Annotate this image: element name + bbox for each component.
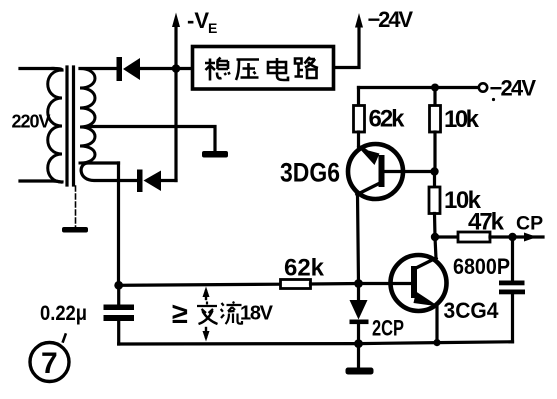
wire box output to -24V arrow — [334, 27, 359, 68]
svg-text:2CP: 2CP — [372, 316, 404, 341]
node lower rail dot — [354, 339, 363, 348]
wire D2 to -VE vertical — [161, 179, 176, 182]
wire Q1 collector down — [358, 195, 359, 284]
wire C1 bottom stem — [117, 321, 120, 344]
svg-text:−24V: −24V — [368, 7, 414, 32]
wire C2 bottom stem — [511, 294, 514, 342]
svg-text:−24V: −24V — [490, 76, 537, 101]
wire lower rail — [119, 342, 513, 344]
Q2 base bar — [411, 266, 417, 298]
transistor Q1 3DG6 circle — [348, 144, 403, 199]
svg-text:62k: 62k — [369, 106, 406, 133]
char 交 — [197, 302, 218, 325]
svg-text:CP: CP — [516, 213, 543, 235]
node R3-R4 dot — [431, 233, 439, 241]
wire Q2 collector up — [435, 237, 436, 259]
char 压 — [236, 60, 259, 81]
arrow AC up stem — [205, 291, 207, 299]
node -VE junction dot — [172, 64, 181, 73]
secondary top lead wire — [80, 67, 117, 70]
wire primary top bend — [53, 69, 62, 71]
wire upper rail right — [311, 282, 359, 286]
char 路 — [295, 57, 319, 78]
wire base node to R3 — [433, 172, 436, 188]
capacitor C2 plate top — [499, 281, 525, 286]
resistor R1 62k — [354, 106, 365, 133]
char 流 — [221, 302, 242, 325]
node rail-R2 dot — [431, 84, 439, 92]
Q2 emitter arrow wedge — [414, 292, 439, 307]
node C1 dot — [114, 281, 123, 290]
wire -24V rail — [359, 86, 479, 89]
arrow -24V head — [355, 13, 363, 28]
wire R3 to node — [433, 214, 437, 238]
transformer core line left — [65, 67, 68, 185]
svg-text:47k: 47k — [468, 209, 505, 236]
ground G2 bar — [346, 368, 374, 375]
diode D1 cathode bar — [117, 57, 123, 81]
svg-text:220V: 220V — [12, 112, 51, 132]
node R4-C2 dot — [508, 233, 516, 241]
wire upper rail left — [119, 284, 281, 285]
capacitor C2 plate bottom — [499, 290, 525, 295]
node upper rail dot — [354, 279, 363, 288]
wire R1 to Q1 emitter — [357, 132, 360, 147]
wire primary bottom bend — [20, 181, 62, 182]
svg-text:-V: -V — [187, 8, 209, 33]
wire -VE vertical — [174, 69, 177, 181]
diode D3 2CP triangle — [350, 300, 368, 320]
arrow AC down head — [203, 331, 210, 342]
wire rail to R2 — [433, 88, 436, 106]
Q2 collector diagonal — [416, 258, 436, 268]
diode D1 triangle — [123, 58, 140, 80]
wire node to R4 — [435, 235, 458, 238]
resistor R5 62k horizontal — [281, 280, 311, 289]
Q1 base lead — [385, 170, 435, 173]
figure number circle 7 — [30, 343, 69, 382]
core ground bar — [62, 227, 88, 233]
wire C2 top stem — [511, 237, 514, 281]
Q1 base bar — [379, 155, 385, 187]
wire Q2 emitter down — [435, 306, 438, 343]
node Q2 emitter rail dot — [433, 339, 440, 346]
resistor R4 47k — [458, 232, 490, 242]
ground G2 stem — [357, 344, 360, 368]
tick mark — [63, 335, 66, 342]
secondary bottom end loop wire — [81, 163, 137, 181]
Q1 collector diagonal — [357, 184, 379, 195]
wire D3 to lower rail — [357, 324, 360, 344]
wire D1 to node -VE — [140, 67, 176, 70]
core ground lead (dashed) — [75, 186, 77, 227]
svg-text:62k: 62k — [284, 255, 325, 282]
arrow CP head — [524, 233, 537, 242]
resistor R2 10k — [430, 106, 441, 133]
svg-text:3CG4: 3CG4 — [444, 298, 500, 323]
capacitor C1 plate top — [104, 305, 135, 311]
char 稳 — [205, 58, 230, 81]
svg-text:6800P: 6800P — [453, 254, 510, 279]
arrow -VE head — [172, 13, 180, 28]
wire node to D3 — [357, 284, 360, 301]
node Q1 base dot — [430, 167, 438, 175]
label 交流 (drawn strokes) — [197, 302, 242, 325]
wire rail to R1 — [357, 88, 360, 106]
char 电 — [268, 58, 288, 80]
wire C1 top stem — [117, 285, 120, 305]
Q1 emitter diagonal — [359, 146, 367, 151]
wire -VE arrow stem — [174, 26, 177, 69]
left vertical wire to bottom rail — [117, 163, 120, 285]
box U1 regulator — [193, 47, 334, 90]
center tap ground bar — [202, 151, 228, 158]
transistor Q2 3CG4 circle — [391, 255, 447, 311]
label 稳压电路 (drawn strokes) — [205, 57, 318, 81]
svg-text:E: E — [208, 20, 217, 36]
diode D2 triangle — [144, 171, 162, 192]
wire node to box — [176, 67, 192, 70]
wire R2 to base node — [433, 132, 436, 172]
terminal -24V circle — [479, 83, 487, 91]
wire Q2 base lead — [359, 282, 412, 285]
svg-text:3DG6: 3DG6 — [280, 158, 340, 188]
svg-text:7: 7 — [41, 347, 58, 380]
diode D3 cathode bar — [350, 320, 369, 325]
capacitor C1 plate bottom — [104, 315, 135, 321]
transformer T1 primary top lead — [20, 67, 53, 70]
wire R4 to CP out — [490, 235, 543, 238]
svg-text:0.22μ: 0.22μ — [40, 302, 87, 325]
arrow AC up head — [203, 287, 210, 298]
transformer T1 secondary winding — [80, 69, 95, 164]
svg-text:10k: 10k — [444, 106, 480, 133]
speck — [492, 98, 495, 101]
svg-text:18V: 18V — [240, 303, 274, 325]
arrow AC down stem — [205, 328, 207, 337]
diode D2 cathode bar — [137, 170, 143, 193]
secondary center tap wire — [90, 127, 215, 152]
svg-text:≥: ≥ — [172, 298, 188, 330]
transformer T1 primary winding — [48, 70, 62, 182]
transformer core line right — [72, 67, 75, 185]
resistor R3 10k — [429, 187, 440, 214]
Q1 emitter arrow wedge — [359, 148, 380, 165]
